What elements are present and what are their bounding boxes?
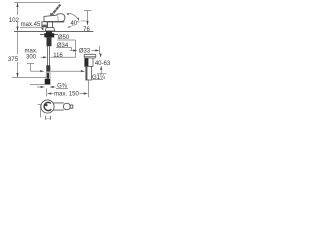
svg-text:40-63: 40-63 [95, 61, 111, 67]
bottom view circle body [41, 100, 54, 113]
svg-text:300: 300 [26, 55, 37, 61]
bottom view leader line [38, 104, 41, 106]
small arrow lower left of 40deg [69, 25, 75, 27]
base stem [47, 22, 49, 28]
drain pipe [86, 66, 92, 80]
supply pipes thin [47, 46, 49, 66]
faucet body [44, 14, 65, 22]
bottom cut-off marks [45, 116, 47, 120]
arrow down at bottom [16, 73, 18, 77]
svg-text:76: 76 [83, 27, 90, 33]
below deck shank [46, 31, 52, 37]
lever hatched [51, 4, 62, 16]
svg-text:G1¼: G1¼ [92, 75, 106, 81]
bottom ref line 375 [12, 77, 46, 79]
svg-text:max.: max. [24, 49, 37, 55]
max 150 dim [46, 89, 48, 97]
40 deg arc annotation [67, 13, 79, 20]
76 dim [84, 10, 92, 12]
ref line left of hose nut [30, 84, 45, 86]
svg-text:102: 102 [9, 17, 20, 24]
deck top line [14, 31, 94, 33]
Ø33 dim [70, 50, 76, 52]
hose dark segment [46, 65, 50, 71]
drain fitting flange [84, 54, 96, 58]
drain body dark [85, 58, 93, 66]
svg-text:Ø34: Ø34 [57, 43, 69, 49]
arrow up top [16, 3, 18, 7]
svg-text:116: 116 [53, 53, 63, 59]
deck bottom line [40, 34, 58, 36]
dim line 102/375 vertical [17, 3, 19, 15]
lever pivot [50, 13, 52, 16]
bottom view spout [54, 103, 64, 110]
arrows at hose nut [37, 86, 42, 88]
spout outlet [42, 22, 47, 27]
mounting nut [44, 33, 54, 37]
G3/8 nut dark [45, 79, 51, 85]
svg-text:375: 375 [8, 56, 19, 63]
116 dim [41, 56, 44, 58]
bottom view lever crescent [44, 102, 51, 110]
hose connector [45, 72, 47, 79]
40-63 dim [100, 54, 102, 58]
arrow down at deck [16, 27, 18, 31]
escutcheon [45, 28, 55, 31]
svg-text:Ø33: Ø33 [79, 49, 91, 55]
svg-text:max. 150: max. 150 [54, 91, 79, 97]
top ref line [14, 2, 60, 4]
